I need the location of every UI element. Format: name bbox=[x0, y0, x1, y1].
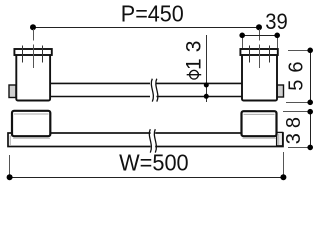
dimension dot left P bbox=[30, 24, 36, 30]
phi13 dot top bbox=[204, 83, 209, 88]
plate highlight line left end bbox=[10, 135, 30, 137]
plate left end inner shading bbox=[9, 136, 11, 146]
dimension dot 56 bottom bbox=[307, 100, 313, 106]
bar (front view) bbox=[50, 83, 242, 96]
phi13 dot bottom bbox=[204, 94, 209, 99]
extension line 39 right bbox=[277, 35, 279, 48]
screw line left post B bbox=[42, 46, 44, 63]
screw line right post A bbox=[249, 46, 251, 63]
dimension W=500 line bbox=[9, 177, 283, 179]
extension line 39 left bbox=[242, 35, 244, 48]
dimension dot W right bbox=[280, 174, 286, 180]
svg-text:13: 13 bbox=[183, 35, 206, 70]
dimension P=450 line bbox=[33, 27, 259, 29]
plate end cap shading bbox=[278, 134, 280, 145]
phi symbol stem bbox=[187, 74, 202, 76]
extension line 56 bottom bbox=[286, 102, 310, 104]
right wall tab (front view) bbox=[277, 85, 284, 97]
dimension dot right P bbox=[256, 24, 262, 30]
dimension 56 line bbox=[310, 50, 312, 102]
dimension dot 39 left bbox=[239, 33, 245, 39]
svg-text:P=450: P=450 bbox=[121, 1, 184, 27]
left bracket (top view) bbox=[12, 111, 50, 136]
dimension dot 38 bottom bbox=[307, 145, 313, 151]
extension line W left bbox=[9, 155, 11, 177]
centerline right post bbox=[259, 29, 261, 68]
left bracket lower shadow bbox=[13, 137, 50, 139]
left bracket inner highlight bbox=[14, 113, 49, 115]
phi13 leader line bbox=[206, 35, 208, 102]
left post body bbox=[16, 53, 50, 101]
right bracket inner highlight bbox=[244, 113, 275, 115]
dimension dot 38 top bbox=[307, 109, 313, 115]
plate highlight line right end bbox=[258, 135, 276, 137]
right bracket lower shadow bbox=[243, 137, 277, 139]
phi symbol circle bbox=[190, 70, 199, 79]
svg-text:38: 38 bbox=[283, 112, 305, 144]
svg-text:56: 56 bbox=[285, 54, 307, 90]
centerline left post bbox=[33, 29, 35, 68]
bar break symbol bbox=[151, 79, 158, 102]
right post cap bbox=[240, 49, 277, 55]
plate right end cap bbox=[277, 132, 283, 145]
screw line left post A bbox=[22, 46, 24, 63]
dimension dot 56 top bbox=[307, 48, 313, 54]
dimension 39 line bbox=[242, 35, 277, 37]
extension line W right bbox=[283, 152, 285, 177]
dimension dot 39 right bbox=[274, 33, 280, 39]
white gap for plate break bbox=[151, 130, 156, 149]
right bracket (top view) bbox=[242, 111, 277, 136]
extension line 38 bottom bbox=[288, 147, 310, 149]
screw line right post B bbox=[269, 46, 271, 63]
left post cap bbox=[14, 49, 51, 55]
svg-text:39: 39 bbox=[265, 9, 288, 34]
dimension dot W left bbox=[7, 174, 13, 180]
bottom plate rail (top view) bbox=[8, 133, 283, 147]
extension line 38 top bbox=[283, 111, 310, 113]
svg-text:W=500: W=500 bbox=[119, 150, 189, 176]
plate break symbol bbox=[149, 129, 156, 152]
extension line 56 top bbox=[288, 50, 310, 52]
left wall tab (front view) bbox=[9, 85, 16, 98]
dimension 38 line bbox=[310, 112, 312, 148]
right post body bbox=[242, 53, 277, 101]
